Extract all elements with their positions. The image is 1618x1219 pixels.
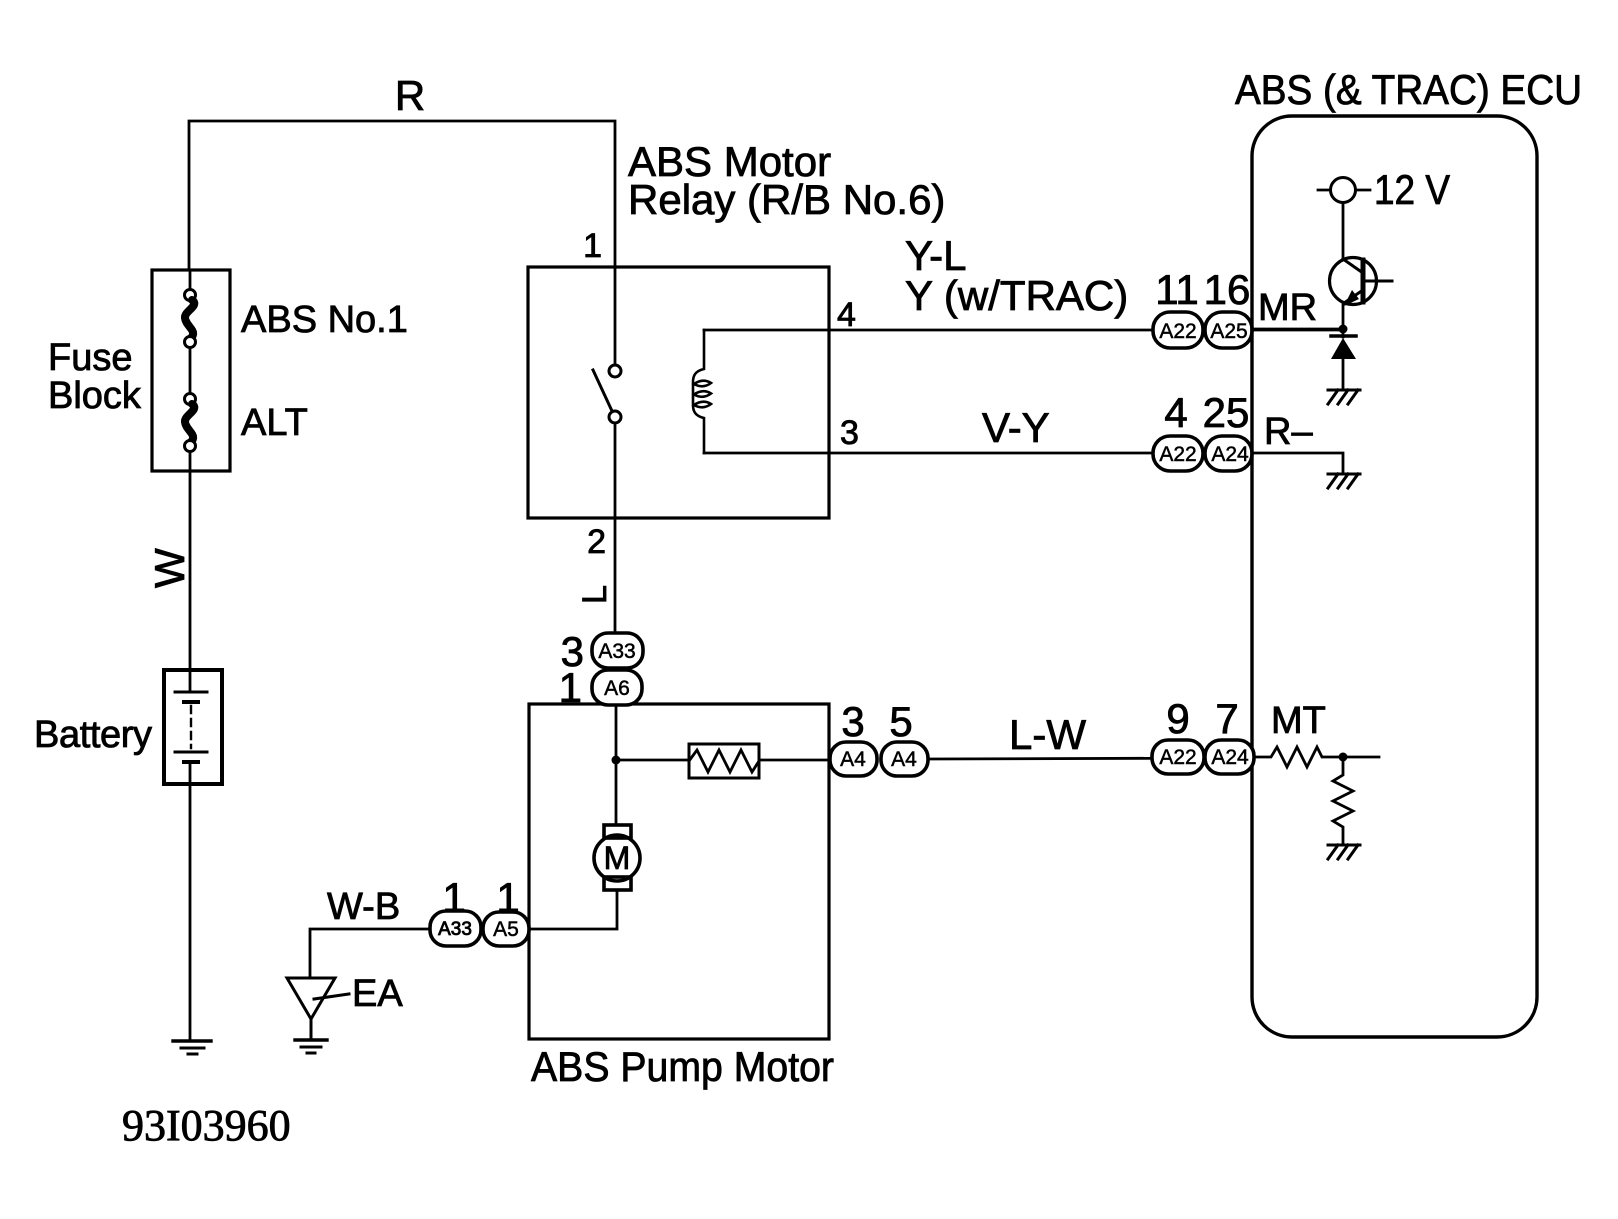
node MR junction [1339,325,1348,334]
svg-text:A33: A33 [598,640,635,663]
wire R: fuse block top to relay pin 1 [189,121,615,270]
fuse ABS No.1 [185,270,196,393]
wire L-W: A4 to ECU MT [928,758,1254,759]
relay box: ABS Motor Relay [528,267,829,518]
connector A22 (R- line) [1153,436,1203,471]
battery [164,670,222,784]
connector A25 (MR line) [1205,312,1252,348]
svg-text:ABS (& TRAC) ECU: ABS (& TRAC) ECU [1235,66,1582,113]
wire L: relay pin 2 to connector A33 [614,518,617,633]
svg-text:1: 1 [559,664,582,711]
svg-text:R: R [395,72,425,119]
svg-text:MR: MR [1258,287,1317,329]
pump motor box [529,704,829,1039]
svg-text:1: 1 [583,227,602,265]
svg-text:A4: A4 [840,748,866,771]
connector A4 (left) [830,742,877,776]
svg-text:A33: A33 [438,919,472,940]
connector A22 (MT line) [1152,740,1204,774]
label ABS Motor Relay (R/B No.6) [628,138,945,223]
wire coil to pin 3 [704,452,829,455]
svg-text:25: 25 [1203,389,1250,436]
svg-text:R–: R– [1264,411,1313,453]
fuse ALT [185,394,196,472]
svg-text:L-W: L-W [1009,711,1086,758]
svg-text:ABS No.1: ABS No.1 [241,299,408,341]
connector A33 (W-B line) [430,911,481,946]
resistor R1 (pump, boxed) [689,744,759,778]
connector A24 (MT line) [1205,740,1254,774]
connector A5 [483,912,529,946]
label Fuse Block [48,337,142,417]
12V supply [1318,178,1370,259]
wire W: fuse block to battery [189,471,192,670]
wire coil to pin 4 [704,329,829,332]
wire MR: connector to transistor node [1254,328,1343,331]
svg-text:Fuse: Fuse [48,337,132,379]
svg-text:1: 1 [442,874,465,921]
svg-text:3: 3 [841,698,864,745]
resistor R3 (ECU vertical) [1333,757,1353,845]
svg-text:A5: A5 [493,918,519,941]
svg-text:3: 3 [840,414,859,452]
transistor Q1 (ECU output) [1330,258,1393,330]
svg-text:ABS Pump Motor: ABS Pump Motor [531,1043,834,1090]
svg-text:12 V: 12 V [1374,166,1450,213]
svg-text:MT: MT [1271,700,1326,742]
svg-text:5: 5 [889,698,912,745]
fuse block [152,270,230,471]
ground (EA) [295,1040,327,1053]
wire motor to A5 [529,890,617,929]
svg-text:1: 1 [496,874,519,921]
connector A22 (MR line) [1153,312,1203,348]
wire W-B [310,929,430,978]
wire resistor to A4 [759,759,829,762]
svg-text:A22: A22 [1159,746,1196,769]
wire MT stub [1343,756,1379,759]
node MT junction [1339,753,1348,762]
ground (R- hatched) [1328,474,1360,488]
relay switch [593,267,621,518]
svg-text:EA: EA [352,973,403,1015]
node pump junction [612,756,621,765]
label Y-L / Y (w/TRAC) [905,232,1128,319]
ground (battery) [173,1041,211,1054]
wire: A6 to motor [615,705,618,825]
svg-text:4: 4 [1164,389,1187,436]
ground EA (triangle) [287,978,349,1040]
svg-text:A22: A22 [1159,443,1196,466]
diode D1 [1331,329,1356,390]
connector A6 (top stack) [592,670,642,705]
svg-text:L: L [576,585,614,604]
svg-text:7: 7 [1215,695,1238,742]
motor M (pump) [594,825,640,890]
svg-text:A25: A25 [1210,320,1247,343]
svg-text:Y (w/TRAC): Y (w/TRAC) [905,272,1128,319]
svg-text:V-Y: V-Y [982,404,1050,451]
ground (diode hatched) [1328,390,1360,404]
svg-text:Relay (R/B No.6): Relay (R/B No.6) [628,176,945,223]
wire Y-L: relay pin 4 to ECU MR node [829,329,1343,332]
connector A33 (top stack) [592,633,643,668]
connector A24 (R- line) [1205,436,1252,471]
svg-text:2: 2 [587,523,606,561]
svg-text:93I03960: 93I03960 [122,1101,291,1150]
resistor R2 (ECU horizontal) [1254,747,1343,767]
svg-text:A24: A24 [1211,746,1249,769]
svg-text:W-B: W-B [327,886,400,928]
svg-text:M: M [604,840,631,876]
wire battery to ground [189,784,192,1040]
svg-text:9: 9 [1166,695,1189,742]
svg-text:Battery: Battery [34,714,152,756]
ECU box [1252,116,1537,1037]
wire node to resistor [616,759,689,762]
relay coil [693,330,711,453]
svg-text:4: 4 [837,296,856,334]
connector A4 (right) [881,742,928,776]
svg-text:W: W [146,548,193,588]
svg-text:A4: A4 [891,748,917,771]
svg-text:Block: Block [48,375,142,417]
svg-text:16: 16 [1204,266,1251,313]
wire V-Y: relay pin 3 to ECU R- ground [829,453,1343,472]
svg-text:A6: A6 [604,677,630,700]
ground (MT hatched) [1328,845,1360,859]
svg-text:ALT: ALT [241,402,308,444]
svg-text:A24: A24 [1211,443,1249,466]
svg-text:A22: A22 [1159,320,1196,343]
svg-text:11: 11 [1155,266,1199,313]
